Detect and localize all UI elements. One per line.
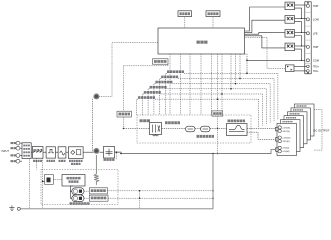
svg-text:INPUT: INPUT [2, 150, 10, 153]
svg-text:+5V(M): +5V(M) [282, 151, 290, 153]
svg-text:LFE: LFE [313, 31, 318, 35]
svg-text:TMP: TMP [313, 4, 319, 8]
svg-text:LOW: LOW [313, 17, 319, 21]
svg-text:TRG−: TRG− [313, 71, 320, 73]
svg-text:+15V(D): +15V(D) [282, 138, 290, 140]
svg-text:+15V(S): +15V(S) [282, 127, 290, 129]
svg-text:TRG+: TRG+ [313, 66, 320, 68]
svg-text:DC OUTPUT: DC OUTPUT [313, 129, 330, 133]
svg-text:TMP: TMP [313, 45, 319, 49]
svg-text:+5V(D): +5V(D) [282, 148, 289, 150]
svg-text:-15V(S): -15V(S) [282, 131, 290, 133]
svg-text:-15V(D): -15V(D) [282, 141, 290, 143]
svg-text:COM: COM [313, 58, 319, 62]
